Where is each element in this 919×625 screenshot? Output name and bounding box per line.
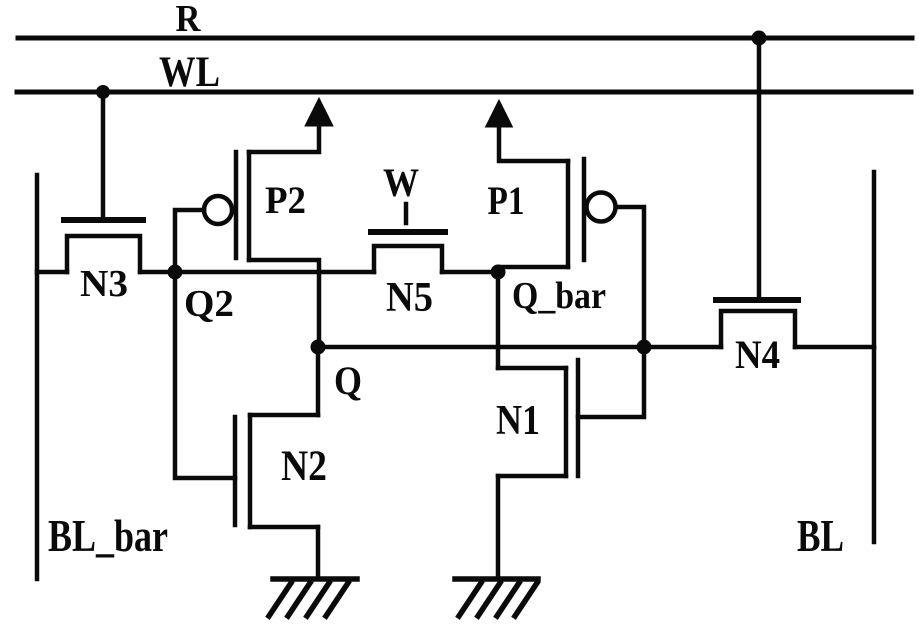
svg-text:P2: P2 <box>265 179 306 222</box>
svg-text:R: R <box>176 0 201 40</box>
ground left <box>269 579 357 616</box>
wire node Q to N2 drain <box>316 347 321 415</box>
wire WL bus <box>17 90 911 95</box>
VDD arrow at P1 <box>486 100 513 127</box>
wire N3 drain to node Q2 <box>140 270 175 275</box>
svg-text:N4: N4 <box>735 332 780 377</box>
node Q_bar <box>491 265 506 280</box>
junction on WL at N3 gate tap <box>96 85 110 99</box>
transistor N4 <box>716 300 798 347</box>
wire N2 source to ground <box>316 527 321 579</box>
wire BL bit line <box>872 172 877 542</box>
ground right <box>455 579 538 616</box>
svg-text:W: W <box>383 160 419 205</box>
wire node Q rail to N4 <box>318 345 721 350</box>
transistor N2 <box>235 415 318 527</box>
transistor P2 <box>204 152 249 260</box>
wire node Q2 to N5 <box>175 270 374 275</box>
node Q <box>311 340 326 355</box>
wire P1 gate to N1 gate cross coupling <box>578 207 644 417</box>
transistor N3 <box>64 220 143 272</box>
svg-text:Q2: Q2 <box>184 283 234 325</box>
svg-text:Q_bar: Q_bar <box>512 275 606 317</box>
wire P2 gate to node Q2 <box>175 210 204 272</box>
svg-text:N5: N5 <box>386 275 433 321</box>
wire P1 source to VDD <box>499 129 568 161</box>
svg-text:Q: Q <box>334 358 362 403</box>
transistor N5 <box>371 232 445 272</box>
svg-text:N1: N1 <box>496 398 540 444</box>
wire W to N5 gate <box>404 204 409 223</box>
VDD arrow at P2 <box>305 98 333 126</box>
svg-text:BL: BL <box>797 510 844 561</box>
wire P2 source to VDD <box>249 128 319 152</box>
wire P2 drain to node Q <box>249 260 319 347</box>
svg-text:WL: WL <box>159 49 220 96</box>
wire R to N4 gate <box>757 38 762 298</box>
node Q2 <box>168 265 183 280</box>
wire BL_bar bit line <box>35 175 40 579</box>
wire WL to N3 gate <box>101 92 106 217</box>
wire BL_bar to N3 source <box>37 270 67 275</box>
wire N4 to BL <box>795 345 874 350</box>
transistor P1 <box>568 159 616 267</box>
wire N5 to node Q_bar <box>442 270 498 275</box>
node on Q rail at N1 gate tap <box>637 340 652 355</box>
wire node Q2 to N2 gate <box>175 272 235 478</box>
wire P1 drain to node Q_bar <box>499 267 568 272</box>
svg-text:P1: P1 <box>488 178 525 223</box>
svg-text:N3: N3 <box>80 263 128 305</box>
junction on R at N4 gate tap <box>752 31 767 46</box>
wire R bus <box>18 36 912 41</box>
transistor N1 <box>498 360 578 476</box>
svg-text:BL_bar: BL_bar <box>48 510 168 561</box>
wire N1 source to ground <box>496 476 501 579</box>
svg-text:N2: N2 <box>281 443 327 490</box>
wire node Q_bar to N1 drain <box>496 272 501 368</box>
